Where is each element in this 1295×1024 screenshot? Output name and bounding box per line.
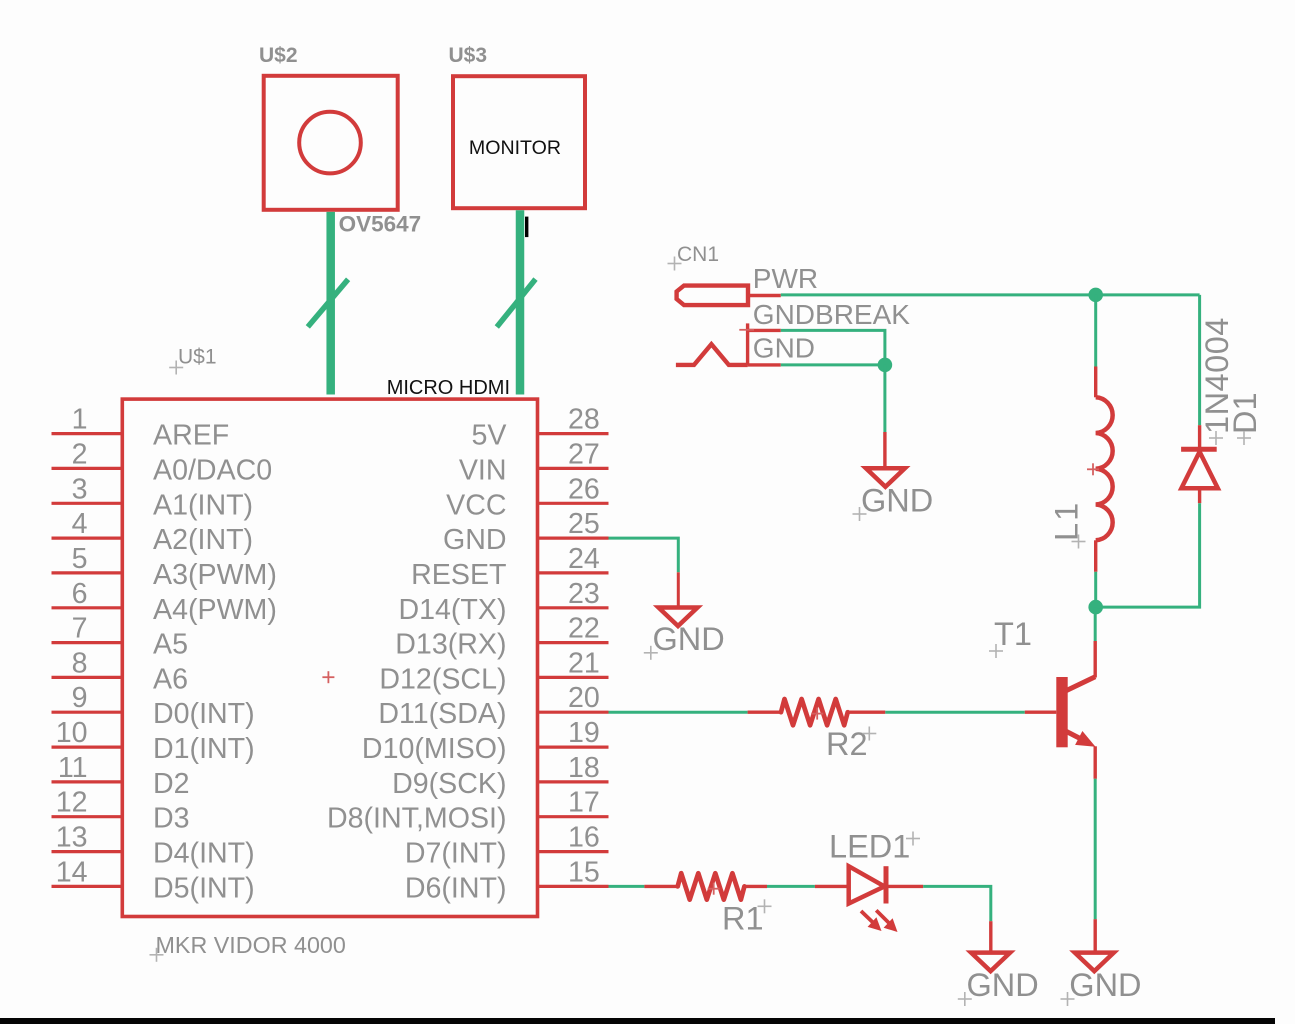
R1 right lead <box>744 885 767 888</box>
ground symbol (T1) <box>1075 953 1114 972</box>
pin 14 (D5(INT)) <box>52 856 255 904</box>
inductor L1 coil <box>1096 397 1113 540</box>
svg-text:5: 5 <box>72 543 88 575</box>
label D1 <box>1227 392 1263 445</box>
resistor R1 <box>678 873 745 899</box>
svg-text:25: 25 <box>568 508 600 540</box>
svg-text:A3(PWM): A3(PWM) <box>153 559 277 591</box>
svg-text:19: 19 <box>568 717 600 749</box>
svg-text:AREF: AREF <box>153 420 229 452</box>
pin 17 (D8(INT,MOSI)) <box>327 787 609 835</box>
svg-text:D3: D3 <box>153 803 190 835</box>
pin 7 (A5) <box>52 613 188 661</box>
diode D1 cathode bar <box>1181 447 1217 452</box>
svg-text:A4(PWM): A4(PWM) <box>153 594 277 626</box>
label U$2 <box>259 44 298 67</box>
svg-text:D10(MISO): D10(MISO) <box>362 733 507 765</box>
label U$1 <box>169 346 216 375</box>
svg-text:22: 22 <box>568 613 600 645</box>
wire PWR to D1 <box>1198 295 1201 425</box>
svg-text:GND: GND <box>753 333 815 364</box>
pin 9 (D0(INT)) <box>52 682 255 730</box>
pin 6 (A4(PWM)) <box>52 578 277 626</box>
svg-text:RESET: RESET <box>411 559 506 591</box>
IC U$1 body <box>122 399 537 916</box>
monitor bus slash <box>497 279 536 327</box>
pin 5 (A3(PWM)) <box>52 543 277 591</box>
label CN1 <box>668 243 720 271</box>
svg-text:16: 16 <box>568 822 600 854</box>
svg-text:VCC: VCC <box>446 489 506 521</box>
svg-text:MKR VIDOR 4000: MKR VIDOR 4000 <box>156 932 346 958</box>
pin 1 (AREF) <box>52 404 230 452</box>
wire pin15 to R1 <box>609 885 645 888</box>
value label 1N4004 <box>1199 317 1235 445</box>
pin 24 (RESET) <box>411 543 608 591</box>
R2 origin cross <box>811 708 823 720</box>
pin 2 (A0/DAC0) <box>52 438 273 486</box>
svg-text:LED1: LED1 <box>829 829 910 865</box>
IC origin cross <box>322 671 334 683</box>
svg-text:PWR: PWR <box>753 263 818 294</box>
svg-text:D11(SDA): D11(SDA) <box>378 698 506 730</box>
L1 bottom pin stub <box>1094 540 1097 572</box>
svg-text:14: 14 <box>56 856 88 888</box>
svg-text:A6: A6 <box>153 663 188 695</box>
wire PWR junction to L1 <box>1094 295 1097 367</box>
svg-text:A5: A5 <box>153 629 188 661</box>
label R1 <box>722 899 772 936</box>
GND pin stub <box>677 572 680 607</box>
svg-text:9: 9 <box>72 682 88 714</box>
L1 top pin stub <box>1094 367 1097 398</box>
svg-text:D8(INT,MOSI): D8(INT,MOSI) <box>327 803 507 835</box>
camera lens circle <box>299 112 361 174</box>
camera bus slash <box>308 279 348 327</box>
GND pin label (CN1) <box>753 333 815 364</box>
pin 10 (D1(INT)) <box>52 717 255 765</box>
ground symbol (LED1) <box>971 953 1010 972</box>
connector CN1 GNDBREAK pin <box>739 323 781 365</box>
svg-text:A0/DAC0: A0/DAC0 <box>153 454 272 486</box>
svg-text:28: 28 <box>568 404 600 436</box>
svg-text:26: 26 <box>568 473 600 505</box>
svg-text:18: 18 <box>568 752 600 784</box>
camera bus wire <box>326 212 335 395</box>
svg-text:MONITOR: MONITOR <box>469 137 561 159</box>
svg-text:12: 12 <box>56 787 88 819</box>
T1 collector pin <box>1067 641 1096 691</box>
svg-text:15: 15 <box>568 856 600 888</box>
wire L1 to junction <box>1094 572 1097 607</box>
svg-text:11: 11 <box>58 752 88 784</box>
svg-text:D13(RX): D13(RX) <box>395 629 506 661</box>
svg-text:R2: R2 <box>826 726 868 762</box>
svg-text:U$3: U$3 <box>449 44 488 67</box>
svg-text:2: 2 <box>72 438 88 470</box>
GND pin stub (CN1 ground) <box>883 432 886 468</box>
ground symbol (pin25) <box>659 608 698 627</box>
svg-text:D12(SCL): D12(SCL) <box>379 663 506 695</box>
svg-text:6: 6 <box>72 578 88 610</box>
svg-text:D9(SCK): D9(SCK) <box>392 768 506 800</box>
connector CN1 GND pin (sleeve) <box>676 344 781 365</box>
pin 8 (A6) <box>52 647 188 695</box>
svg-text:GNDBREAK: GNDBREAK <box>753 299 910 330</box>
svg-text:D5(INT): D5(INT) <box>153 872 255 904</box>
MONITOR text <box>469 137 561 159</box>
R1 left lead <box>644 885 677 888</box>
MICRO HDMI label <box>387 377 510 399</box>
text cursor bar <box>525 217 528 238</box>
LED1 cathode lead <box>886 885 923 888</box>
svg-text:D6(INT): D6(INT) <box>405 872 507 904</box>
svg-text:8: 8 <box>72 647 88 679</box>
svg-text:D2: D2 <box>153 768 190 800</box>
T1 GND pin stub <box>1093 919 1096 952</box>
pin 23 (D14(TX)) <box>398 578 608 626</box>
label LED1 <box>829 829 920 865</box>
svg-text:3: 3 <box>72 473 88 505</box>
GNDBREAK pin label <box>753 299 910 330</box>
GND label (CN1 ground) <box>853 483 934 521</box>
monitor U$3 body <box>453 76 585 208</box>
ground symbol (CN1) <box>866 468 905 487</box>
LED1 emission arrows <box>861 910 898 932</box>
pin 12 (D3) <box>52 787 190 835</box>
svg-text:R1: R1 <box>722 900 764 936</box>
LED GND pin stub <box>989 921 992 952</box>
svg-text:GND: GND <box>861 483 933 519</box>
pin 4 (A2(INT)) <box>52 508 254 556</box>
T1 emitter <box>1067 731 1096 779</box>
svg-text:A2(INT): A2(INT) <box>153 524 253 556</box>
label R2 <box>826 726 876 762</box>
pin 20 (D11(SDA)) <box>378 682 608 730</box>
R2 right lead <box>848 711 886 714</box>
black bottom bar <box>0 1018 1275 1024</box>
pin 21 (D12(SCL)) <box>379 647 608 695</box>
svg-text:7: 7 <box>72 613 88 645</box>
resistor R2 <box>781 699 848 725</box>
svg-text:CN1: CN1 <box>677 243 719 266</box>
svg-text:D1: D1 <box>1227 392 1263 434</box>
svg-text:GND: GND <box>653 621 725 657</box>
L1 origin cross <box>1087 463 1099 475</box>
wire R2 to T1 base <box>885 711 1024 714</box>
svg-text:D0(INT): D0(INT) <box>153 698 255 730</box>
pin 15 (D6(INT)) <box>405 856 609 904</box>
svg-text:23: 23 <box>568 578 600 610</box>
svg-text:D1(INT): D1(INT) <box>153 733 255 765</box>
svg-text:U$2: U$2 <box>259 44 298 67</box>
pin 13 (D4(INT)) <box>52 822 255 870</box>
value label MKR VIDOR 4000 <box>150 932 346 962</box>
pin 11 (D2) <box>52 752 190 800</box>
transistor T1 base bar <box>1056 677 1067 747</box>
svg-text:OV5647: OV5647 <box>339 212 422 237</box>
GND label (pin25) <box>644 621 725 660</box>
pin 18 (D9(SCK)) <box>392 752 608 800</box>
svg-text:13: 13 <box>56 822 88 854</box>
wire GND net down <box>883 365 886 432</box>
GND label (LED1) <box>958 967 1039 1006</box>
LED D1 triangle <box>849 866 885 903</box>
D1 cathode pin stub <box>1198 425 1201 449</box>
wire T1 emitter to GND <box>1094 779 1097 919</box>
svg-text:A1(INT): A1(INT) <box>153 489 253 521</box>
R2 left lead <box>748 711 781 714</box>
svg-text:D7(INT): D7(INT) <box>405 838 507 870</box>
svg-text:GND: GND <box>967 967 1039 1003</box>
junction dot PWR/L1/D1 <box>1088 288 1103 303</box>
svg-text:21: 21 <box>568 647 600 679</box>
svg-text:GND: GND <box>1069 967 1141 1003</box>
pin 3 (A1(INT)) <box>52 473 254 521</box>
pin 16 (D7(INT)) <box>405 822 609 870</box>
pin 28 (5V) <box>472 404 609 452</box>
T1 base pin <box>1025 711 1057 714</box>
pin 25 (GND) <box>443 508 609 556</box>
pin 19 (D10(MISO)) <box>362 717 609 765</box>
wire R1 to LED1 <box>767 885 815 888</box>
svg-text:VIN: VIN <box>459 454 507 486</box>
svg-text:20: 20 <box>568 682 600 714</box>
R1 origin cross <box>708 883 720 895</box>
PWR pin label <box>753 263 818 294</box>
label T1 <box>989 616 1032 658</box>
pin 22 (D13(RX)) <box>395 613 608 661</box>
svg-text:17: 17 <box>568 787 600 819</box>
svg-text:D4(INT): D4(INT) <box>153 838 255 870</box>
junction dot GND net <box>878 358 893 373</box>
svg-text:24: 24 <box>568 543 600 575</box>
svg-text:D14(TX): D14(TX) <box>398 594 506 626</box>
diode D1 triangle <box>1181 452 1217 489</box>
svg-text:GND: GND <box>443 524 507 556</box>
svg-text:4: 4 <box>72 508 88 540</box>
wire D1 to junction <box>1096 503 1200 607</box>
D1 anode pin stub <box>1198 488 1201 503</box>
svg-text:5V: 5V <box>472 420 507 452</box>
LED1 cathode bar <box>884 866 889 903</box>
junction dot L1/D1/T1 <box>1088 600 1103 615</box>
svg-text:T1: T1 <box>994 616 1032 652</box>
LED1 anode lead <box>815 885 849 888</box>
camera module U$2 body <box>264 76 398 210</box>
wire PWR net <box>781 293 1200 296</box>
svg-text:27: 27 <box>568 438 600 470</box>
svg-text:1: 1 <box>72 404 88 436</box>
svg-text:MICRO HDMI: MICRO HDMI <box>387 377 510 399</box>
wire pin25 to GND <box>609 538 679 572</box>
pin 26 (VCC) <box>446 473 608 521</box>
wire junction to T1 collector <box>1094 607 1097 641</box>
wire CN1 GND net <box>781 363 885 366</box>
connector CN1 PWR pin (center pin) <box>677 286 781 306</box>
svg-text:10: 10 <box>56 717 88 749</box>
label U$3 <box>449 44 488 67</box>
GND label (T1) <box>1061 967 1142 1006</box>
pin 27 (VIN) <box>459 438 609 486</box>
value label OV5647 <box>339 212 422 237</box>
wire pin20 to R2 <box>609 711 748 714</box>
svg-text:U$1: U$1 <box>178 346 217 369</box>
wire GNDBREAK net <box>781 330 885 365</box>
label L1 <box>1049 501 1086 549</box>
monitor bus wire <box>516 210 525 394</box>
wire LED1 to GND <box>923 886 991 921</box>
